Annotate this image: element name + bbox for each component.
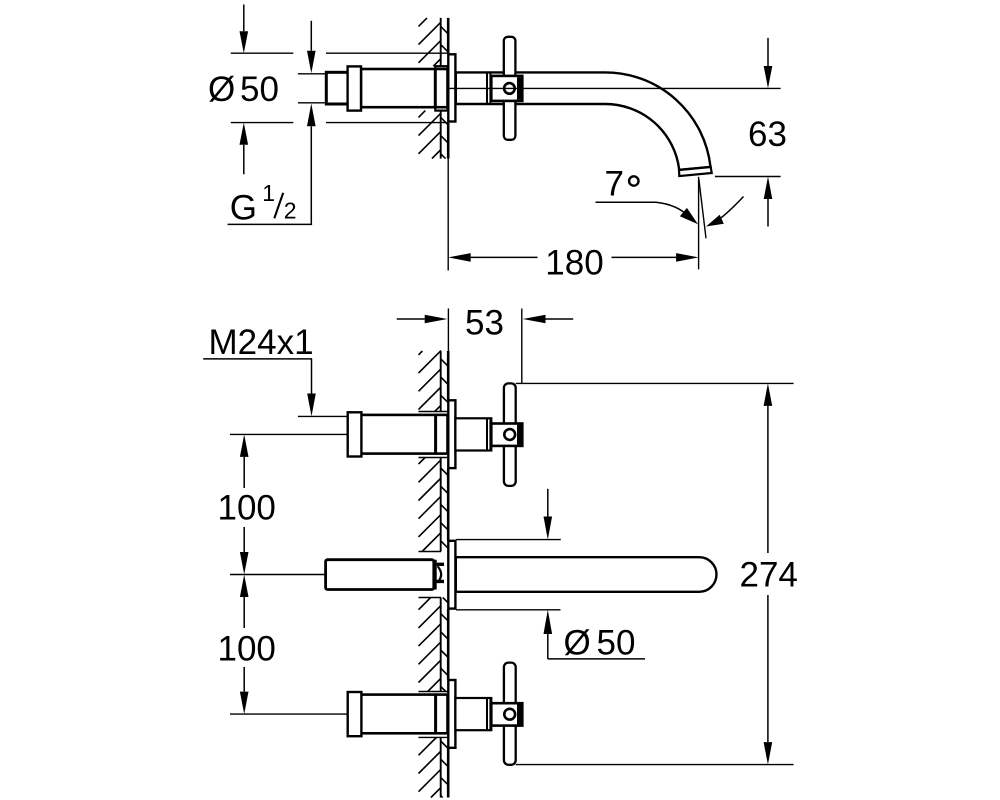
wall hatching inside wall strip (bottom view) (441, 359, 448, 798)
svg-text:M24x1: M24x1 (209, 323, 314, 362)
7 degree tilted outlet axis line (699, 179, 706, 239)
M24x1 label underline (203, 358, 312, 360)
handle screw hole (bottom handle) (504, 709, 515, 720)
Ø50 lower leader arrow (bottom view) (547, 634, 549, 659)
63 upper extension line on spout axis (top view) (449, 87, 781, 89)
handle stem (bottom handle) (455, 698, 491, 730)
53 dim extension above wall (447, 309, 449, 352)
handle screw hole (top view) (504, 83, 515, 94)
180 right extension line at outlet drip point (698, 177, 700, 269)
100 dimension line second (with arrows) (243, 597, 245, 692)
7 degree right arc with arrow (718, 197, 744, 221)
G 1/2 leader upper arrow (310, 21, 312, 51)
mounting ring (top handle) (348, 412, 362, 456)
handle hub (top view) (491, 76, 522, 101)
shank connector bars (437, 564, 444, 581)
mounting ring (top view) (348, 66, 361, 110)
valve body (bottom handle) (361, 695, 447, 734)
valve body (top handle) (361, 415, 447, 454)
handle screw hole (top handle) (504, 429, 515, 440)
G 1/2 leader lower arrow and line (310, 126, 312, 224)
handle stem (top handle) (455, 418, 491, 450)
svg-text:50: 50 (240, 70, 279, 109)
handle hub shaded edge (bottom handle) (517, 704, 521, 724)
svg-text:100: 100 (218, 630, 276, 669)
63 dimension lower arrow (767, 199, 769, 227)
spout outlet end cap (top view) (679, 167, 712, 176)
handle cross bar vertical (top view) (504, 37, 516, 140)
Ø50 flange bottom extension line (spout) (456, 609, 561, 611)
pipe edge extension lines (top view) (298, 74, 326, 103)
53 dim extension at handle hub edge (521, 309, 523, 384)
Ø50 top extension / wall opening line (top view) (231, 52, 448, 54)
svg-text:180: 180 (545, 243, 603, 282)
wall flange escutcheon (top view) (448, 54, 455, 121)
rough-in housing in wall (top view) (435, 66, 447, 110)
G 1/2 label underline (228, 223, 313, 225)
wall hatching left of wall (top view) (419, 18, 442, 159)
svg-text:Ø: Ø (208, 70, 235, 109)
Ø50 bottom extension / wall opening line (top view) (231, 122, 448, 124)
274 top extension line at handle bar (516, 382, 794, 384)
wall hatching inside wall strip (top view) (441, 26, 448, 158)
escutcheon flange (top handle) (448, 400, 455, 468)
spout tube with bend (top view) (456, 72, 711, 169)
svg-text:63: 63 (748, 115, 787, 154)
7 degree leader line (596, 202, 690, 217)
svg-text:G: G (230, 188, 257, 227)
wall opening lines at spout (419, 552, 442, 598)
63 lower extension line at outlet (top view) (715, 176, 781, 178)
valve body end line at wall (top handle) (434, 414, 437, 455)
wall opening lines at top handle (419, 412, 448, 458)
handle cross bar (top handle) (504, 383, 516, 486)
handle hub shaded edge (top handle) (517, 425, 521, 445)
shank end cap thick line (433, 560, 436, 590)
274 dimension line with arrows (767, 406, 769, 742)
Ø50 upper leader arrow (bottom view) (547, 489, 549, 517)
supply pipe stub G1/2 (top view) (326, 72, 349, 104)
mounting ring (bottom handle) (348, 692, 362, 736)
valve body end line at wall (bottom handle) (434, 693, 437, 734)
100 dim extension line on bottom handle axis (230, 713, 348, 715)
shank connector arc (438, 566, 442, 582)
100 dimension line first (with arrows) (243, 457, 245, 552)
180 left extension line at wall (top view) (447, 159, 449, 271)
wall surface line right (bottom view) (447, 351, 450, 798)
svg-text:274: 274 (740, 556, 798, 595)
Ø50 dimension lower arrow (top view) (243, 145, 245, 175)
escutcheon flange (spout) (448, 541, 455, 609)
svg-text:1: 1 (262, 180, 275, 206)
Ø50 flange top extension line (spout) (456, 539, 561, 541)
63 dimension upper arrow (767, 38, 769, 66)
stem collar lines (bottom handle) (487, 698, 490, 730)
M24x1 extension line of valve body edge (298, 415, 348, 417)
274 bottom extension line at handle bar (516, 764, 794, 766)
100 dim extension line on top handle axis (230, 433, 348, 435)
wall line left (top view) (440, 18, 442, 159)
svg-text:53: 53 (465, 304, 504, 343)
wall hatching left of wall (bottom view) (419, 351, 442, 798)
stem collar lines (top handle) (487, 418, 490, 450)
valve body (top view) (361, 69, 448, 107)
53 dimension left arrow (397, 318, 425, 320)
escutcheon flange (bottom handle) (448, 680, 455, 748)
stem collar lines (top view) (487, 72, 490, 104)
spout tube with rounded end (plan view) (456, 557, 717, 592)
wall opening lines at bottom handle (419, 692, 448, 738)
handle hub (bottom handle) (491, 703, 522, 725)
svg-text:Ø: Ø (564, 623, 591, 662)
svg-text:2: 2 (284, 198, 297, 224)
Ø50 dimension upper arrow (top view) (243, 5, 245, 32)
100 dim extension line on spout axis (230, 574, 326, 576)
180 dimension line with arrows (471, 256, 676, 258)
53 dimension right arrow (546, 318, 574, 320)
wall surface line right (top view) (447, 18, 450, 159)
svg-text:100: 100 (218, 489, 276, 528)
svg-text:50: 50 (597, 623, 636, 662)
handle hub (top handle) (491, 424, 522, 446)
spout mounting shank behind wall (326, 560, 434, 590)
wall line left (bottom view) (440, 351, 442, 798)
handle hub shaded edge (top view) (517, 77, 521, 99)
svg-text:7: 7 (605, 164, 624, 203)
valve body end line at wall (top view) (434, 68, 437, 109)
M24x1 leader with arrow (311, 359, 313, 394)
Ø50 label underline (bottom view) (548, 658, 645, 660)
handle cross bar (bottom handle) (504, 663, 516, 765)
